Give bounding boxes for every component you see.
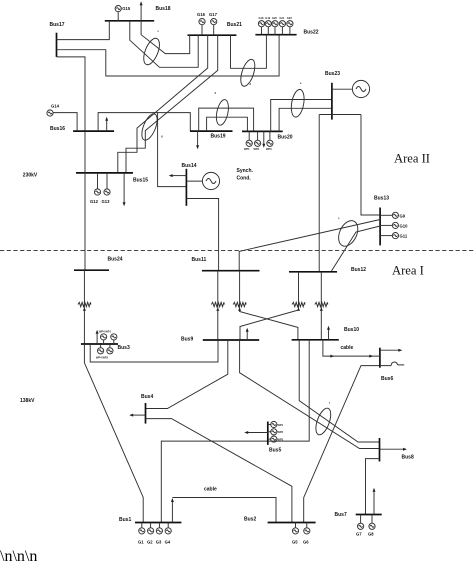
svg-text:Bus7: Bus7 xyxy=(335,512,347,518)
svg-text:G4: G4 xyxy=(165,540,171,545)
svg-text:G18: G18 xyxy=(259,16,264,20)
svg-text:Bus19: Bus19 xyxy=(211,134,226,140)
svg-text:Area I: Area I xyxy=(392,264,424,278)
svg-text:Bus16: Bus16 xyxy=(50,126,65,132)
svg-text:G5: G5 xyxy=(292,540,298,545)
svg-text:cable: cable xyxy=(341,345,354,351)
svg-text:WP3: WP3 xyxy=(278,437,284,441)
svg-text:Synch.: Synch. xyxy=(237,168,254,174)
svg-text:Bus14: Bus14 xyxy=(182,163,197,169)
svg-text:Bus9: Bus9 xyxy=(181,337,193,343)
svg-text:G22: G22 xyxy=(287,16,292,20)
svg-text:Bus8: Bus8 xyxy=(402,455,414,461)
svg-text:G9: G9 xyxy=(400,213,406,218)
svg-text:Bus10: Bus10 xyxy=(344,327,359,333)
svg-text:Bus4: Bus4 xyxy=(141,394,153,400)
svg-text:WP3: WP3 xyxy=(266,147,272,151)
svg-text:Bus18: Bus18 xyxy=(156,6,171,12)
svg-text:230kV: 230kV xyxy=(23,173,38,179)
svg-text:Bus15: Bus15 xyxy=(133,178,148,184)
svg-text:Bus13: Bus13 xyxy=(374,196,389,202)
svg-text:G1: G1 xyxy=(138,540,144,545)
svg-text:G11: G11 xyxy=(400,234,408,239)
svg-text:WP2: WP2 xyxy=(254,147,260,151)
svg-text:G8: G8 xyxy=(368,532,374,537)
svg-text:Bus12: Bus12 xyxy=(351,267,366,273)
svg-text:WP4 WP1: WP4 WP1 xyxy=(99,330,112,334)
svg-text:G21: G21 xyxy=(279,16,284,20)
svg-text:G19: G19 xyxy=(265,16,270,20)
svg-text:Bus20: Bus20 xyxy=(278,135,293,141)
svg-text:G3: G3 xyxy=(156,540,162,545)
svg-text:cable: cable xyxy=(204,487,217,493)
svg-text:Bus24: Bus24 xyxy=(108,257,123,263)
svg-text:Bus1: Bus1 xyxy=(119,517,131,523)
svg-text:G20: G20 xyxy=(272,16,277,20)
svg-text:WP1: WP1 xyxy=(278,423,284,427)
svg-text:Bus3: Bus3 xyxy=(118,345,130,351)
svg-text:G13: G13 xyxy=(102,199,111,204)
svg-text:Bus11: Bus11 xyxy=(192,257,207,263)
svg-text:WP4 WP2: WP4 WP2 xyxy=(96,355,109,359)
svg-text:G10: G10 xyxy=(400,223,409,228)
svg-text:WP2: WP2 xyxy=(278,430,284,434)
svg-text:G14: G14 xyxy=(51,104,60,109)
svg-text:G12: G12 xyxy=(90,199,99,204)
svg-text:Cond.: Cond. xyxy=(237,175,252,181)
svg-text:138kV: 138kV xyxy=(20,398,35,404)
svg-text:Bus6: Bus6 xyxy=(381,376,393,382)
svg-text:Bus5: Bus5 xyxy=(269,448,281,454)
svg-text:G16: G16 xyxy=(197,12,206,17)
svg-text:Bus2: Bus2 xyxy=(244,517,256,523)
svg-text:G6: G6 xyxy=(303,540,309,545)
svg-text:Bus23: Bus23 xyxy=(325,71,340,77)
svg-text:Area II: Area II xyxy=(394,152,430,166)
svg-text:WP1: WP1 xyxy=(244,147,250,151)
svg-text:G2: G2 xyxy=(147,540,153,545)
svg-text:Bus17: Bus17 xyxy=(50,22,65,28)
svg-text:G15: G15 xyxy=(122,6,131,11)
svg-text:Bus21: Bus21 xyxy=(227,22,242,28)
svg-text:f: f xyxy=(329,401,330,405)
svg-text:G7: G7 xyxy=(356,532,362,537)
svg-text:G17: G17 xyxy=(209,12,218,17)
svg-text:Bus22: Bus22 xyxy=(304,30,319,36)
